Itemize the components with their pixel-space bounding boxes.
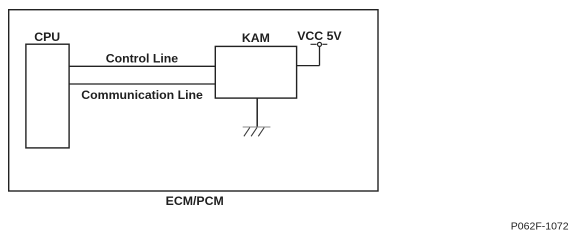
ground: hatch 2 — [251, 128, 257, 137]
svg-text:CPU: CPU — [34, 30, 60, 44]
svg-text:Control Line: Control Line — [106, 52, 179, 66]
KAM block U2 — [215, 46, 296, 98]
wire: KAM to ground (vertical stem) — [256, 98, 258, 127]
wire: Communication Line (CPU to KAM) — [69, 83, 215, 85]
VCC terminal circle — [318, 42, 322, 46]
ground: chassis bar — [243, 126, 271, 128]
ground: hatch 1 — [244, 128, 250, 137]
wire: Control Line (CPU to KAM) — [69, 65, 215, 67]
svg-text:ECM/PCM: ECM/PCM — [166, 194, 224, 208]
svg-text:P062F-1072: P062F-1072 — [511, 220, 569, 232]
wire: VCC stem (vertical segment) — [319, 47, 321, 66]
wire: KAM to VCC supply (horizontal segment) — [297, 65, 320, 67]
VCC terminal tick left — [311, 43, 317, 45]
CPU block U1 — [26, 44, 69, 148]
svg-text:KAM: KAM — [242, 31, 270, 45]
VCC terminal tick right — [322, 43, 327, 45]
svg-text:Communication Line: Communication Line — [81, 88, 203, 102]
svg-text:VCC 5V: VCC 5V — [297, 29, 342, 43]
ground: hatch 3 — [258, 128, 264, 137]
ECM/PCM boundary box — [9, 10, 378, 191]
